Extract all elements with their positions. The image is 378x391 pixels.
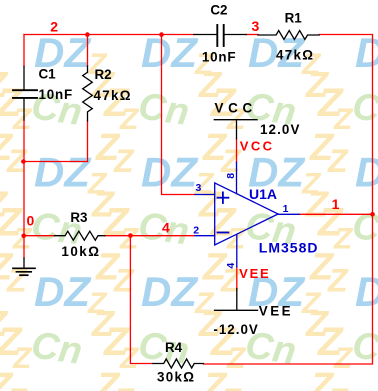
svg-text:47kΩ: 47kΩ <box>276 48 314 63</box>
svg-text:10nF: 10nF <box>202 50 236 65</box>
svg-text:R1: R1 <box>285 11 303 26</box>
svg-text:1: 1 <box>283 203 289 215</box>
svg-text:47kΩ: 47kΩ <box>94 88 132 103</box>
svg-text:VEE: VEE <box>259 304 293 319</box>
svg-text:1: 1 <box>332 196 340 212</box>
svg-text:C1: C1 <box>39 67 57 82</box>
svg-text:C2: C2 <box>210 3 227 18</box>
svg-text:VEE: VEE <box>239 266 270 281</box>
svg-text:12.0V: 12.0V <box>260 122 301 137</box>
svg-text:10kΩ: 10kΩ <box>61 244 100 259</box>
svg-text:2: 2 <box>193 224 199 236</box>
svg-text:U1A: U1A <box>249 186 277 202</box>
svg-text:R4: R4 <box>165 340 183 355</box>
svg-text:R3: R3 <box>70 210 87 225</box>
svg-text:3: 3 <box>196 182 202 194</box>
svg-text:30kΩ: 30kΩ <box>157 370 195 385</box>
svg-text:LM358D: LM358D <box>259 240 319 256</box>
svg-text:4: 4 <box>225 263 237 269</box>
svg-text:VCC: VCC <box>240 139 275 154</box>
svg-text:10nF: 10nF <box>39 87 73 102</box>
svg-text:8: 8 <box>225 173 237 179</box>
svg-text:R2: R2 <box>95 67 112 82</box>
svg-text:VCC: VCC <box>215 101 257 116</box>
svg-text:0: 0 <box>27 213 35 229</box>
svg-text:2: 2 <box>50 18 58 34</box>
svg-text:3: 3 <box>252 18 260 34</box>
svg-text:-12.0V: -12.0V <box>213 322 258 337</box>
svg-text:4: 4 <box>162 220 170 236</box>
